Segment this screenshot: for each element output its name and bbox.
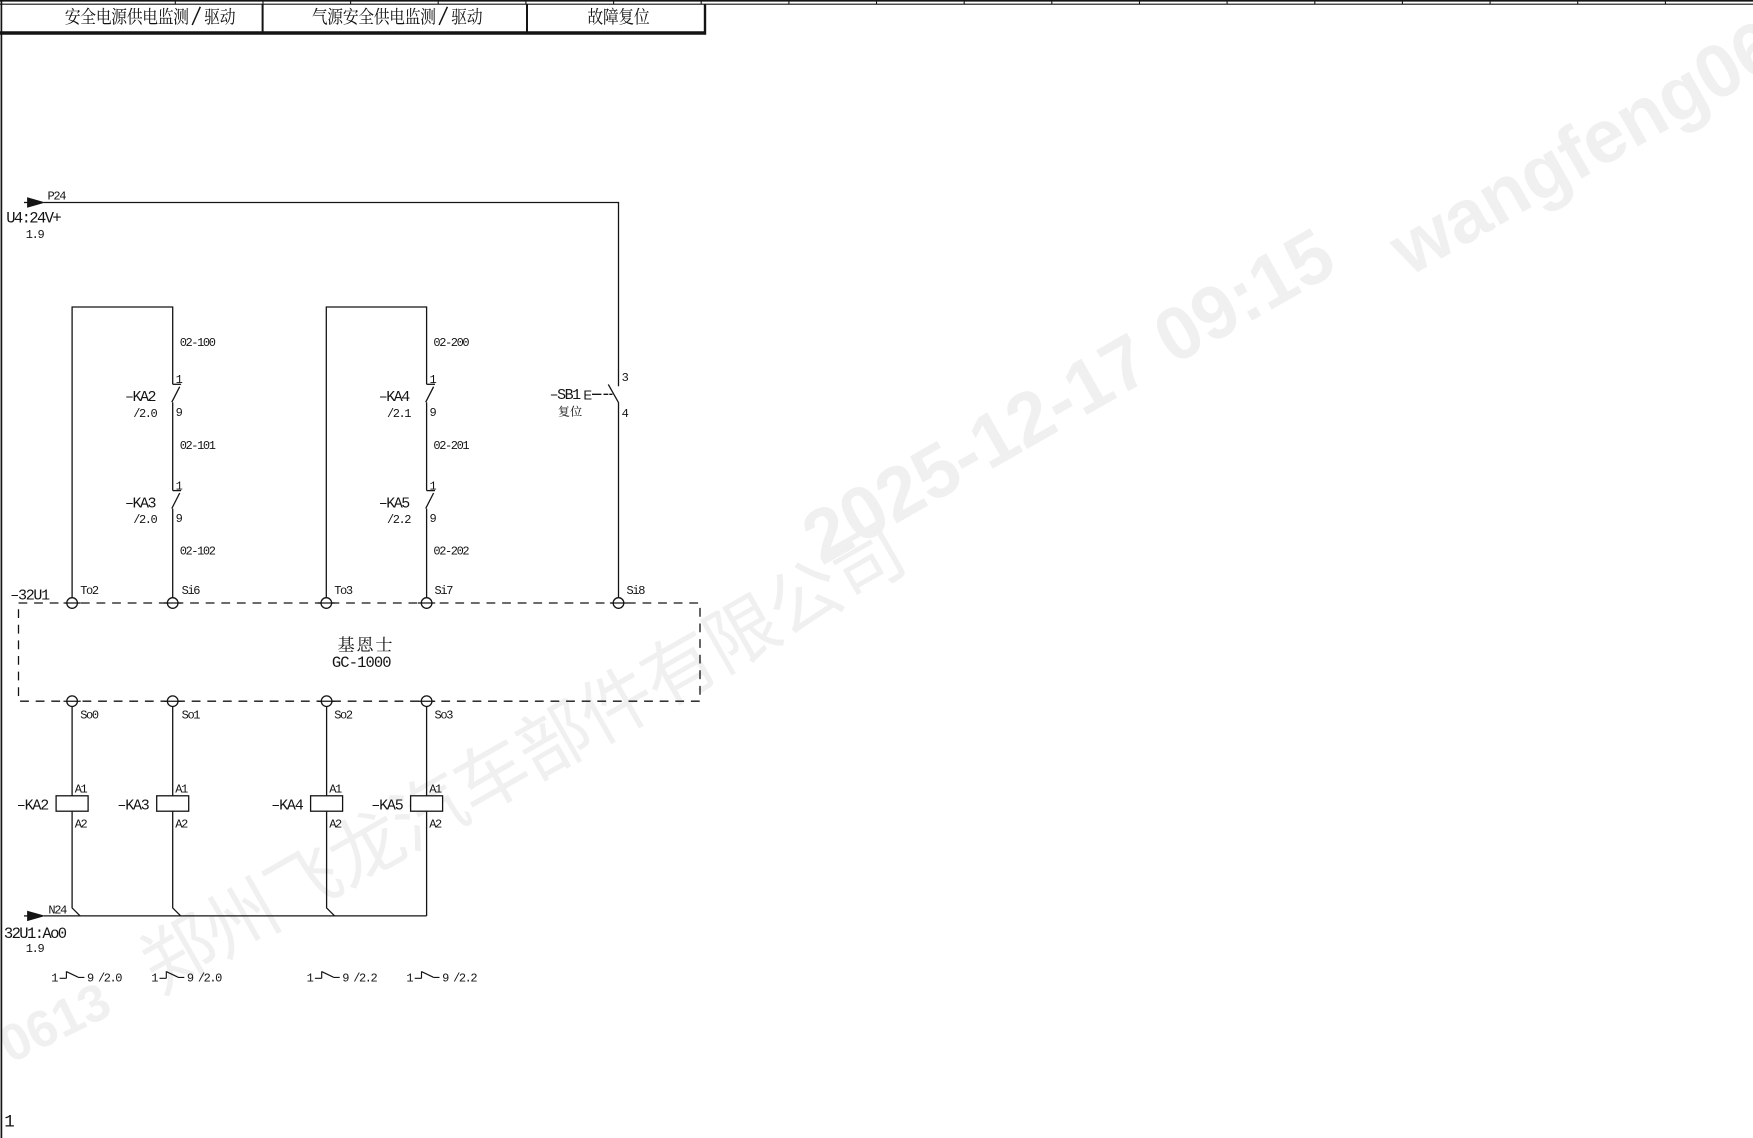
svg-text:/2.0: /2.0 <box>198 972 222 986</box>
svg-text:–KA3: –KA3 <box>117 798 149 815</box>
svg-text:1: 1 <box>307 972 314 986</box>
svg-text:/2.0: /2.0 <box>133 407 157 421</box>
svg-text:/2.0: /2.0 <box>133 513 157 527</box>
svg-text:–KA5: –KA5 <box>379 495 411 512</box>
svg-text:So2: So2 <box>334 709 353 723</box>
svg-text:So3: So3 <box>435 709 454 723</box>
svg-text:/2.0: /2.0 <box>98 972 122 986</box>
svg-text:02-102: 02-102 <box>180 544 216 558</box>
svg-text:A1: A1 <box>429 783 442 797</box>
svg-text:A2: A2 <box>175 818 188 832</box>
svg-text:9: 9 <box>430 406 437 420</box>
svg-text:9: 9 <box>176 406 183 420</box>
svg-text:9: 9 <box>430 512 437 526</box>
svg-text:0613: 0613 <box>0 972 120 1075</box>
svg-text:A2: A2 <box>329 818 342 832</box>
svg-text:P24: P24 <box>48 189 67 203</box>
svg-text:E: E <box>583 387 592 402</box>
svg-text:Si7: Si7 <box>435 584 454 598</box>
svg-text:–KA2: –KA2 <box>17 798 48 815</box>
svg-text:–32U1: –32U1 <box>10 588 50 605</box>
svg-text:A2: A2 <box>75 818 88 832</box>
svg-text:wangfeng0613: wangfeng0613 <box>1374 0 1753 291</box>
svg-text:–KA2: –KA2 <box>125 389 156 406</box>
svg-text:–SB1: –SB1 <box>550 387 582 404</box>
svg-text:1: 1 <box>176 479 183 493</box>
svg-text:–KA5: –KA5 <box>371 798 403 815</box>
svg-text:1: 1 <box>4 1113 14 1133</box>
svg-text:N24: N24 <box>48 904 67 918</box>
svg-text:9: 9 <box>176 512 183 526</box>
svg-text:9: 9 <box>442 972 449 986</box>
svg-text:A1: A1 <box>329 783 342 797</box>
svg-text:1: 1 <box>430 373 437 387</box>
svg-text:32U1:Ao0: 32U1:Ao0 <box>4 925 67 943</box>
svg-text:1: 1 <box>51 972 58 986</box>
svg-text:GC-1000: GC-1000 <box>332 654 391 672</box>
svg-text:02-101: 02-101 <box>180 439 216 453</box>
svg-text:02-100: 02-100 <box>180 336 216 350</box>
svg-text:A1: A1 <box>75 783 88 797</box>
svg-text:–KA4: –KA4 <box>271 798 303 815</box>
svg-text:/2.2: /2.2 <box>353 972 377 986</box>
svg-text:To2: To2 <box>80 584 99 598</box>
svg-text:U4:24V+: U4:24V+ <box>6 209 61 227</box>
svg-text:1.9: 1.9 <box>26 228 45 242</box>
svg-text:/2.2: /2.2 <box>387 513 411 527</box>
svg-text:–KA4: –KA4 <box>379 389 411 406</box>
svg-text:Si8: Si8 <box>627 584 646 598</box>
svg-text:4: 4 <box>622 407 629 421</box>
svg-text:3: 3 <box>622 371 629 385</box>
svg-text:A2: A2 <box>429 818 442 832</box>
svg-text:1: 1 <box>430 479 437 493</box>
svg-text:–KA3: –KA3 <box>125 495 157 512</box>
svg-text:9: 9 <box>342 972 349 986</box>
svg-text:So0: So0 <box>80 709 99 723</box>
svg-text:/2.2: /2.2 <box>453 972 477 986</box>
svg-text:02-201: 02-201 <box>433 439 469 453</box>
svg-text:A1: A1 <box>175 783 188 797</box>
svg-text:1.9: 1.9 <box>26 942 45 956</box>
svg-text:/2.1: /2.1 <box>387 407 411 421</box>
svg-text:Si6: Si6 <box>182 584 201 598</box>
svg-text:1: 1 <box>176 373 183 387</box>
svg-text:1: 1 <box>406 972 413 986</box>
svg-text:1: 1 <box>151 972 158 986</box>
svg-text:To3: To3 <box>334 584 353 598</box>
svg-text:02-200: 02-200 <box>433 336 469 350</box>
svg-text:So1: So1 <box>182 709 201 723</box>
svg-text:02-202: 02-202 <box>433 544 469 558</box>
svg-text:2025-12-17 09:15: 2025-12-17 09:15 <box>788 211 1348 579</box>
